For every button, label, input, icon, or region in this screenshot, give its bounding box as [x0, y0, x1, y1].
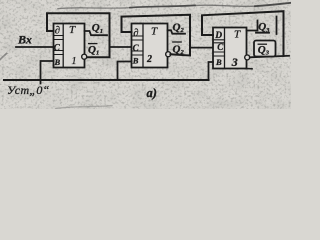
feedback loop 2: Q̄2 to D2 over the top — [122, 15, 191, 56]
U3 pin column divider — [224, 28, 226, 69]
flip-flop U2 (T trigger 2) box — [132, 24, 168, 68]
U1 inversion bubble on Q̄1 — [82, 54, 87, 59]
U3 box bottom overshoot stroke — [247, 68, 253, 70]
U1 pin cell lines — [54, 36, 64, 55]
U2 pin cell lines — [132, 36, 144, 55]
svg-text:T: T — [151, 26, 158, 38]
feedback loop 1: Q̄1 to D1 over the top — [47, 13, 110, 57]
svg-text:C: C — [217, 42, 224, 52]
wire: reset to R2 — [118, 62, 132, 81]
flip-flop U3 (T trigger 3) box — [213, 28, 247, 69]
U3 pin cell lines — [213, 40, 225, 56]
scan streak left margin — [0, 54, 7, 60]
svg-text:Уст„0“: Уст„0“ — [7, 83, 50, 97]
flip-flop U1 (T trigger 1) box — [54, 24, 85, 68]
svg-text:Вх: Вх — [17, 33, 32, 47]
svg-text:а): а) — [147, 86, 157, 100]
wire: Q̄2 to C3 — [190, 47, 213, 49]
output Q2 stub — [168, 30, 186, 33]
svg-text:2: 2 — [146, 54, 152, 65]
svg-text:T: T — [69, 24, 76, 36]
wire: reset to R3 — [209, 62, 214, 80]
paper background — [0, 0, 291, 109]
reset bus Уст0 — [4, 79, 209, 81]
U2 pin column divider — [142, 24, 144, 68]
svg-text:C: C — [54, 42, 61, 52]
svg-text:В: В — [215, 57, 222, 67]
wire: Вх input to C1 — [16, 46, 54, 48]
feedback loop 3: Q̄3 to D3 over the top — [202, 11, 284, 56]
svg-text:∂: ∂ — [55, 26, 60, 37]
svg-text:1: 1 — [72, 56, 77, 67]
svg-text:D: D — [214, 31, 222, 41]
output Q3 stub and terminal frame — [247, 17, 277, 35]
svg-text:В: В — [54, 57, 61, 67]
scan artifact smudge line across top — [58, 8, 130, 9]
wire: Q̄1 to C2 — [110, 46, 132, 48]
svg-text:T: T — [234, 29, 241, 41]
svg-text:C: C — [133, 43, 140, 53]
wire: Q̄3 output — [250, 56, 289, 58]
svg-text:∂: ∂ — [133, 28, 138, 39]
scan streak bottom — [56, 106, 112, 109]
U2 inversion bubble on Q̄2 — [166, 52, 171, 57]
U3 inversion bubble on Q̄3 — [245, 55, 250, 60]
wire: reset to R1 — [41, 61, 54, 84]
output terminal frame Q̄3 — [254, 41, 276, 57]
output Q1 stub — [85, 31, 108, 35]
svg-text:3: 3 — [231, 55, 238, 69]
svg-text:В: В — [132, 55, 139, 65]
U1 pin column divider — [62, 24, 64, 68]
